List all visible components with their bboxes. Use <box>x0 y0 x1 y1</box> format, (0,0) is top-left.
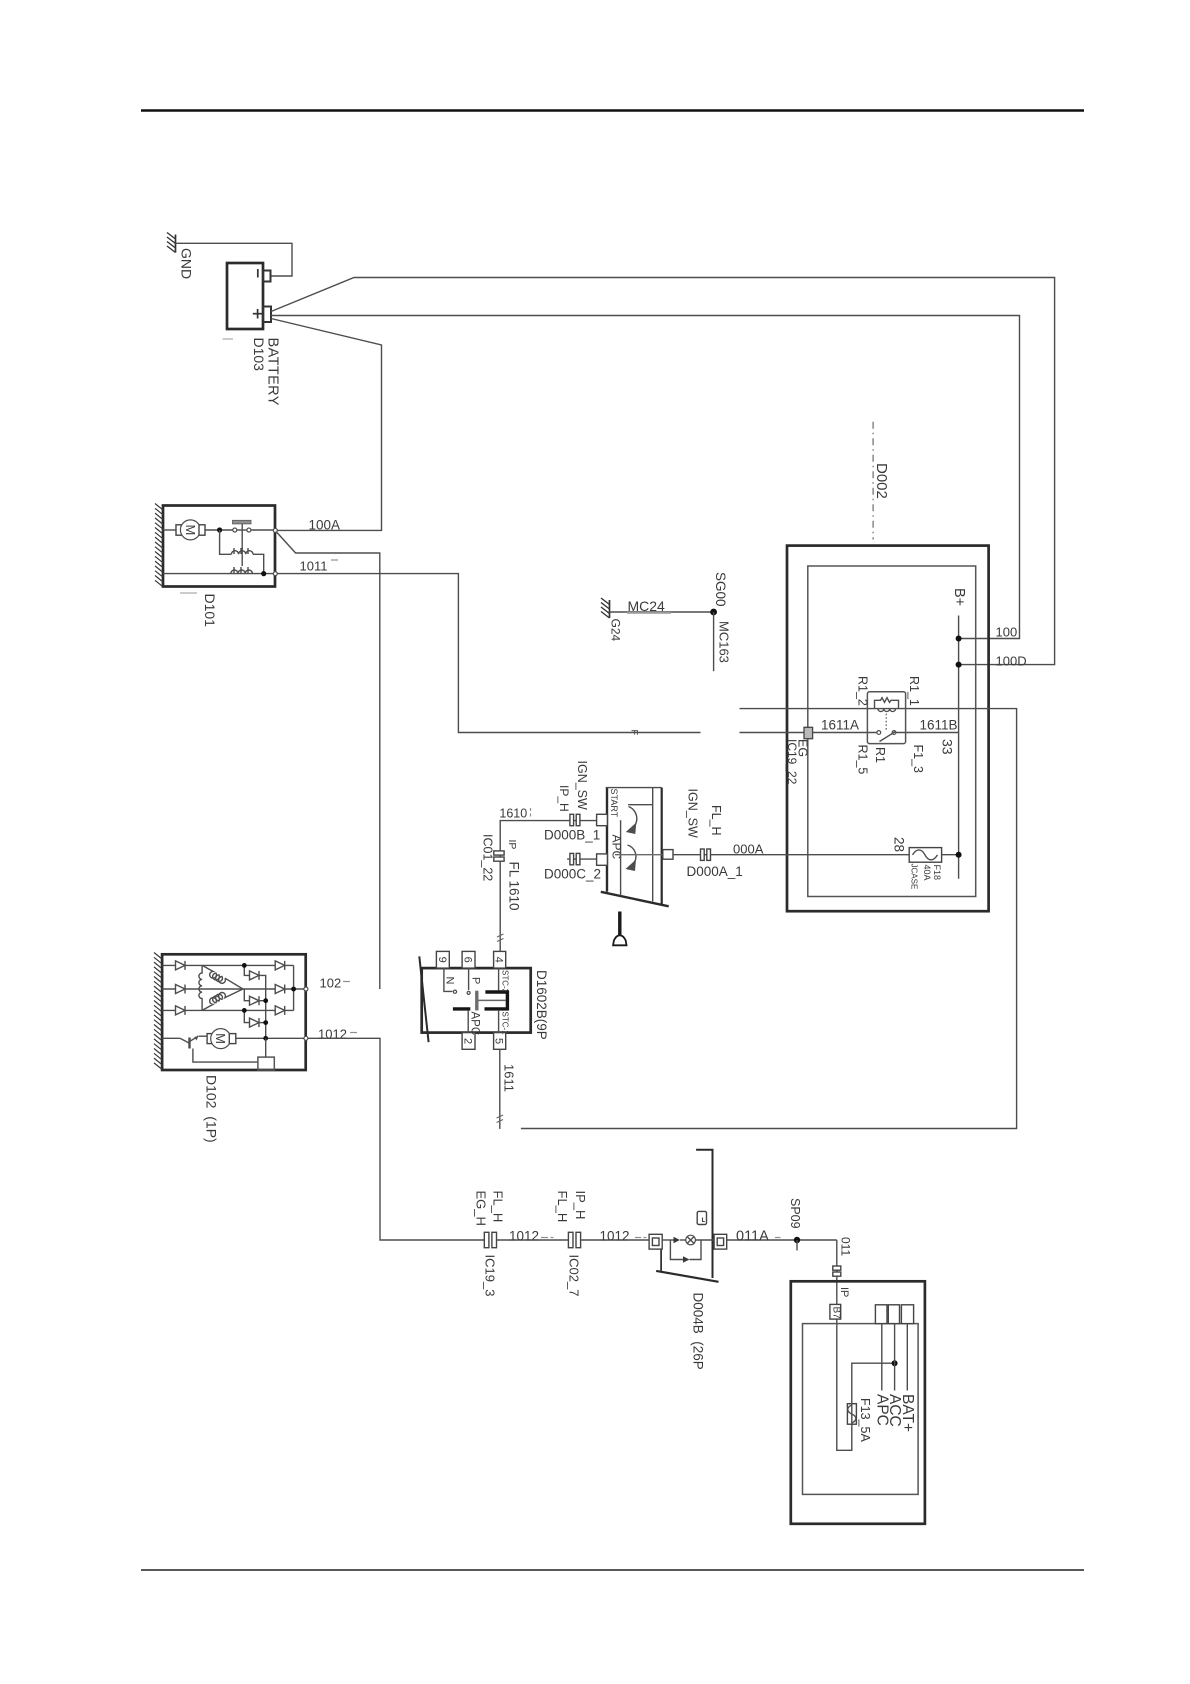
svg-text:SG00: SG00 <box>713 572 728 607</box>
svg-text:STC-2: STC-2 <box>500 970 509 994</box>
svg-text:P: P <box>469 977 481 984</box>
svg-text:1610: 1610 <box>499 807 527 821</box>
svg-text:B+: B+ <box>951 588 967 606</box>
break mark after 1011 <box>331 559 338 561</box>
svg-text:IP: IP <box>838 1287 850 1297</box>
svg-text:D1602B(9P: D1602B(9P <box>534 970 549 1040</box>
MC24 underline <box>627 612 671 614</box>
pin line ACC <box>894 1324 896 1391</box>
top page rule <box>141 109 1084 112</box>
svg-text:IGN_SW: IGN_SW <box>685 789 699 839</box>
meter box inner <box>803 1324 919 1495</box>
break mark after 1012 <box>350 1032 357 1034</box>
wire 1611 from pin 5 <box>499 1049 501 1129</box>
key pin START <box>597 814 608 825</box>
pin 5 <box>494 1033 506 1050</box>
output diode 2 <box>275 985 285 994</box>
gray tick under D101 <box>180 592 197 594</box>
delta winding <box>199 965 243 1010</box>
output diode 3 <box>275 1006 285 1015</box>
svg-text:IGN_SW: IGN_SW <box>575 761 589 811</box>
wire 1012 segment 3 <box>581 1239 650 1241</box>
D004B connector boundary <box>656 1150 718 1282</box>
fuse box D002 outer <box>787 546 989 912</box>
key symbol <box>613 912 626 946</box>
stator diode 3 <box>176 1006 186 1015</box>
field diode mid <box>244 989 268 1005</box>
junction <box>261 571 266 576</box>
svg-text:IP_H: IP_H <box>573 1191 588 1220</box>
svg-text:D002: D002 <box>873 463 890 499</box>
svg-text:IC19_3: IC19_3 <box>483 1255 498 1297</box>
svg-text:28: 28 <box>891 837 906 852</box>
svg-text:R1: R1 <box>873 747 887 763</box>
svg-text:STC-1: STC-1 <box>500 1012 509 1036</box>
starter D101 box <box>163 506 275 587</box>
svg-text:IC01_22: IC01_22 <box>480 834 494 881</box>
regulator transistor <box>162 1036 258 1062</box>
fuse box D002 inner <box>808 566 976 897</box>
wire MC163 stub <box>713 612 715 671</box>
pin box BAT+ <box>901 1305 913 1324</box>
svg-text:D004B (26P: D004B (26P <box>690 1293 705 1370</box>
svg-text:BATTERY: BATTERY <box>265 338 281 406</box>
svg-text:5: 5 <box>493 1038 505 1044</box>
splice connector D000A_1 <box>701 849 711 860</box>
svg-text:1011: 1011 <box>300 559 328 574</box>
relay contact <box>877 731 896 742</box>
svg-text:M: M <box>213 1033 228 1044</box>
svg-text:MC24: MC24 <box>628 598 666 614</box>
svg-text:6: 6 <box>462 957 474 963</box>
pin 9 <box>436 951 449 968</box>
svg-text:2: 2 <box>462 1038 474 1044</box>
break marks <box>541 1237 554 1239</box>
wire 011 down into meter box <box>837 1240 852 1450</box>
phase line 3 <box>162 1009 294 1011</box>
pin line APC <box>881 1324 883 1391</box>
svg-text:100: 100 <box>996 625 1018 640</box>
svg-text:D101: D101 <box>202 594 218 628</box>
break mark on 1611 wire <box>497 1115 504 1123</box>
key output pin <box>663 850 673 860</box>
phase line 1 <box>162 964 294 966</box>
svg-text:APC: APC <box>609 835 623 860</box>
D102 ground hatching <box>154 953 162 1070</box>
svg-text:D102 (1P): D102 (1P) <box>203 1075 219 1143</box>
connector IC19_3 <box>484 1232 496 1247</box>
svg-text:100D: 100D <box>996 654 1027 669</box>
contact bridge bar <box>506 990 509 1010</box>
svg-text:R1_5: R1_5 <box>855 745 869 775</box>
bottom page rule <box>141 1569 1084 1571</box>
svg-text:FL_H: FL_H <box>555 1191 570 1223</box>
svg-text:SP09: SP09 <box>788 1198 802 1229</box>
D101 bottom internal wire <box>163 573 275 575</box>
svg-text:D000C_2: D000C_2 <box>544 867 601 882</box>
wire 000A to fuse 28 <box>673 854 909 856</box>
splice SG00 <box>710 609 717 616</box>
pin line BAT+ <box>906 1324 908 1391</box>
rotor field M <box>207 1029 236 1049</box>
wire relay coil to ignition ST (line B) <box>521 709 1017 1129</box>
connector at box entry <box>833 1266 841 1276</box>
svg-text:FL_H: FL_H <box>491 1191 506 1223</box>
svg-text:1611: 1611 <box>502 1064 517 1092</box>
svg-text:FL 1610: FL 1610 <box>506 862 521 911</box>
splice connector D000B_1 <box>570 814 580 825</box>
ignition switch D1602B box <box>422 968 531 1033</box>
svg-text:011: 011 <box>838 1237 852 1256</box>
ground GND symbol <box>167 233 176 253</box>
pin 6 <box>462 951 475 968</box>
wire 1611A through relay contact (line C) <box>740 732 878 734</box>
break mark after 1610 <box>530 808 532 818</box>
relay R1 box <box>867 692 905 744</box>
connector face slant <box>419 956 428 1042</box>
svg-text:1012: 1012 <box>600 1229 630 1244</box>
lamp bypass loop <box>670 1240 701 1263</box>
connector IC02_7 <box>568 1232 580 1247</box>
svg-text:D103: D103 <box>251 338 267 372</box>
svg-text:EG_H: EG_H <box>474 1191 489 1226</box>
wire 011A <box>727 1239 837 1241</box>
junction 100 <box>956 636 962 642</box>
contact STC-2 <box>485 968 509 994</box>
svg-text:MC163: MC163 <box>717 621 732 663</box>
splice SP09 <box>794 1237 800 1243</box>
wire battery minus to ground <box>176 243 293 276</box>
svg-text:1012: 1012 <box>318 1027 347 1042</box>
key lower arrow <box>626 845 637 871</box>
stub D000C_2 <box>567 858 597 860</box>
svg-text:GND: GND <box>179 248 195 279</box>
wire 100 battery plus to D002 (inner) <box>271 316 1020 639</box>
svg-text:G24: G24 <box>609 619 623 642</box>
svg-text:R1_2: R1_2 <box>855 676 869 706</box>
phase line 2 (102 output) <box>162 988 306 990</box>
regulator block <box>258 1057 274 1070</box>
break mark after 102 <box>343 981 350 983</box>
key wire to 000A <box>615 854 663 856</box>
break mark on pin4 wire <box>497 934 504 942</box>
terminal contacts on box edge <box>273 528 277 532</box>
relay coil with resistor <box>875 698 899 731</box>
solenoid hold-in coil <box>231 567 253 574</box>
wire 1610 <box>500 821 596 952</box>
svg-text:F1_3: F1_3 <box>911 745 925 774</box>
terminal contacts D102 <box>304 987 308 991</box>
svg-text:IC02_7: IC02_7 <box>567 1255 582 1297</box>
svg-text:N: N <box>444 977 456 985</box>
charge lamp <box>680 1235 714 1245</box>
splice connector D000C_2 <box>570 853 580 864</box>
svg-text:APC: APC <box>468 1012 480 1036</box>
svg-text:40A: 40A <box>922 865 932 881</box>
svg-text:IP: IP <box>506 840 518 850</box>
starter solenoid contacts <box>205 520 275 566</box>
wire 100A battery plus down to starter <box>271 319 382 531</box>
svg-text:011A: 011A <box>736 1229 769 1245</box>
D004B pin box left <box>649 1234 662 1249</box>
rotor <box>477 991 506 1011</box>
wire fuse to B+ junction <box>942 854 959 856</box>
meter box outer <box>791 1281 925 1524</box>
contact STC-1 <box>485 1009 510 1035</box>
svg-text:IC19_22: IC19_22 <box>785 739 799 785</box>
solenoid pull-in coil <box>220 530 264 574</box>
svg-text:33: 33 <box>940 739 956 755</box>
svg-text:D000B_1: D000B_1 <box>544 828 600 843</box>
svg-text:R1_1: R1_1 <box>907 676 921 706</box>
D002 leader line <box>872 422 874 540</box>
ignition key housing <box>601 787 669 906</box>
fuse F18 <box>909 848 941 863</box>
alternator D102 box <box>162 954 306 1070</box>
key upper arrow <box>626 807 637 835</box>
output diode 1 <box>275 961 285 970</box>
pin 4 <box>494 951 506 968</box>
svg-text:B7: B7 <box>830 1307 841 1320</box>
contact APC <box>453 1009 480 1035</box>
wire 102 branch from starter B terminal <box>277 532 380 989</box>
wire 1012 to charge lamp circuit <box>308 1038 484 1240</box>
wire 1011 from starter to relay line <box>277 574 700 733</box>
connector EG IC19_22 <box>804 727 813 738</box>
B+ bus line <box>958 616 960 879</box>
stator diode 1 <box>176 961 186 970</box>
contact P <box>467 968 481 994</box>
svg-text:102: 102 <box>320 976 342 991</box>
D101 ground hatching <box>155 504 163 587</box>
svg-text:9: 9 <box>436 957 448 963</box>
break mark <box>775 1237 781 1239</box>
svg-text:START: START <box>609 789 619 818</box>
output bus <box>293 965 295 1010</box>
svg-text:FL_H: FL_H <box>709 805 723 836</box>
connector IC01_22 <box>494 851 504 861</box>
svg-text:F13_5A: F13_5A <box>858 1398 872 1442</box>
wire fuse to ACC line <box>852 1363 895 1404</box>
wire 1012 segment 2 <box>497 1239 569 1241</box>
battery D103 <box>227 263 271 329</box>
contact N <box>444 968 457 993</box>
svg-text:4: 4 <box>493 957 505 963</box>
svg-text:D000A_1: D000A_1 <box>687 864 743 879</box>
stator diode 2 <box>176 985 186 994</box>
pin box ACC <box>888 1305 899 1324</box>
label B7 boxed <box>830 1304 842 1319</box>
svg-text:M: M <box>183 524 198 535</box>
D004B pin box right <box>714 1234 727 1249</box>
pin 2 <box>462 1033 475 1050</box>
field diode top <box>242 963 266 1038</box>
svg-text:1611B: 1611B <box>920 718 958 733</box>
ground G24 symbol <box>601 598 610 618</box>
break marks <box>635 1237 647 1239</box>
charge lamp diode <box>662 1237 680 1243</box>
gray tick under battery <box>223 338 234 340</box>
svg-text:IP_H: IP_H <box>557 785 571 812</box>
wire 100D battery plus to D002 (outer) <box>271 278 1055 665</box>
field diode bottom <box>242 1008 268 1027</box>
wire MC24 to ground <box>610 611 714 613</box>
D004B small box <box>697 1211 706 1224</box>
starter motor M <box>163 520 205 540</box>
field wire <box>236 1037 306 1039</box>
svg-text:JCASE: JCASE <box>910 864 919 890</box>
junction fuse to B+ <box>956 852 962 858</box>
pin box APC <box>875 1305 887 1324</box>
svg-text:000A: 000A <box>733 842 764 857</box>
svg-text:APC: APC <box>873 1394 890 1426</box>
svg-text:1012: 1012 <box>509 1229 539 1244</box>
key pin APC <box>597 854 608 865</box>
fuse F13 <box>847 1404 856 1425</box>
svg-text:1611A: 1611A <box>821 718 859 733</box>
svg-text:100A: 100A <box>309 518 341 533</box>
svg-text:F: F <box>629 730 640 736</box>
svg-text:F18: F18 <box>932 865 942 881</box>
junction 100D <box>956 662 962 668</box>
